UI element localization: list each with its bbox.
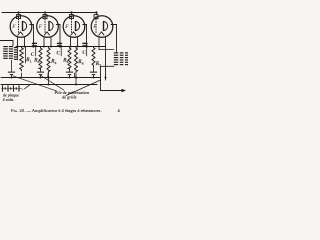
wire plate/grid top bus [2,13,97,15]
tube V1 grid (dashed) [18,19,20,33]
svg-text:4 volts: 4 volts [3,97,14,102]
wire coupling bus [16,46,105,48]
wire T1 lead [17,47,19,61]
transformer T2 primary [114,52,118,65]
label pile line1 [54,90,90,95]
wire V2 filament legs [43,37,52,48]
tube V4 plate [104,21,108,31]
wire filament return hook V2 [47,73,49,78]
svg-text:F: F [11,24,16,30]
tube V4 envelope [91,16,113,38]
svg-text:FIG. 20. — Amplificateur à 4 é: FIG. 20. — Amplificateur à 4 étages à ré… [11,108,101,113]
resistor R6 [75,47,78,86]
label R3 [33,58,39,64]
svg-text:F: F [64,24,69,30]
svg-text:6: 6 [82,61,84,65]
transformer T1 secondary [9,46,18,60]
label R5 [62,58,68,64]
leader right [66,80,101,96]
tube V3 envelope [63,16,85,38]
label R4 [50,59,56,65]
wire V3 filament legs [70,37,79,48]
caption Fig 20 [11,108,101,113]
node corner to tube 4 grid cap [95,11,97,13]
wire R1b [25,46,27,63]
resistor R4 [47,47,50,86]
wire plate lead V1 [30,25,35,48]
resistor R5 [68,47,71,70]
wire V4 filament leg left [99,37,114,50]
svg-text:F: F [92,24,97,30]
svg-text:de grille: de grille [62,95,77,100]
tube V3 grid (dashed) [71,19,73,33]
wire V1 filament legs [17,37,26,48]
tube V2 envelope [37,16,59,38]
svg-text:C: C [56,51,60,57]
node grid-cap junction tube 2 [44,11,46,14]
label pile line2 [62,95,77,100]
label battery line2 [3,97,14,102]
svg-text:+: + [21,86,24,91]
tube V2 grid (dashed) [44,19,46,33]
wire battery to rail B [25,85,31,89]
resistor R1 [20,46,24,71]
wire C3 lead [86,47,88,56]
svg-text:F: F [38,24,43,30]
tube V2 filament [38,24,50,36]
battery bias cell stage2 [37,70,44,78]
capacitor C2 (coupling) [57,43,62,47]
wire output with arrow [101,89,127,92]
wire plate lead V2 [56,25,61,48]
battery B1 filament/plate [2,85,22,91]
transformer T1 primary [3,46,8,59]
wire V4 plate lead [111,25,117,53]
tube V4 grid (dashed) [95,19,97,33]
tube V1 filament [11,24,23,36]
wire C2 lead [60,47,62,56]
resistor R7 [92,46,95,66]
tube V3 filament [64,24,76,36]
battery bias cell stage3 [66,70,73,78]
label battery + [21,86,24,91]
label C stage3 [82,50,86,56]
tube V1 plate [23,21,27,31]
tube V3 grid cap [70,15,74,19]
wire T1 secondary to bias cell [11,60,13,71]
wire C1 lead [35,47,37,56]
battery bias cell stage4 [90,67,97,78]
label R6 [77,59,83,65]
resistor R3 [39,47,42,70]
wire plate lead V3 [83,25,88,48]
label C stage2 [56,51,60,57]
wire V4 filament leg right [105,37,107,80]
wire T2 return [101,66,114,90]
tube V2 plate [49,21,53,31]
label R7 [95,61,101,67]
svg-text:3: 3 [38,60,40,64]
wire filament rail B [1,84,97,86]
leader to bias cell 1 [13,76,57,91]
battery bias cell stage1 [8,72,15,78]
wire filament return hook V3 [73,73,75,78]
capacitor C1 (coupling) [32,43,37,47]
tube V4 filament [92,24,104,36]
node grid-cap junction tube 3 [70,11,72,14]
transformer T2 secondary [120,52,128,65]
label R1 [25,57,31,63]
wire filament return hook V1 [20,73,22,78]
capacitor C3 (coupling) [82,43,87,47]
page number [118,108,121,113]
label battery line1 [3,93,19,98]
svg-text:5: 5 [67,60,69,64]
tube V1 grid cap [17,15,21,19]
svg-text:C: C [82,50,86,56]
wire input from detector [0,41,13,46]
tube V3 plate [76,21,80,31]
label C stage1 [31,52,35,58]
wire filament rail A [1,77,101,79]
tube V2 grid cap [43,15,47,19]
svg-text:4: 4 [55,61,57,65]
svg-text:1: 1 [30,59,32,63]
leader to bias cell 2 [41,76,64,91]
node grid-cap junction tube 1 [17,11,19,14]
tube V1 envelope [10,16,32,38]
tube V4 grid cap [94,15,98,19]
